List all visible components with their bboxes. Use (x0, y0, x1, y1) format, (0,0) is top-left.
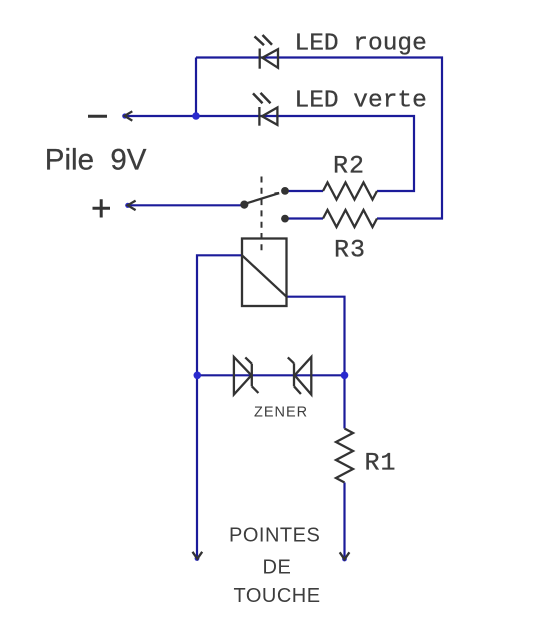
svg-text:LED rouge: LED rouge (295, 30, 427, 57)
svg-text:TOUCHE: TOUCHE (234, 585, 321, 607)
svg-text:ZENER: ZENER (254, 405, 308, 421)
svg-text:R2: R2 (333, 152, 365, 181)
svg-text:Pile 9V: Pile 9V (45, 144, 147, 177)
svg-text:R3: R3 (334, 235, 366, 264)
svg-text:DE: DE (263, 556, 292, 578)
svg-text:R1: R1 (365, 448, 397, 477)
svg-text:LED verte: LED verte (295, 88, 427, 115)
svg-text:POINTES: POINTES (229, 525, 320, 547)
